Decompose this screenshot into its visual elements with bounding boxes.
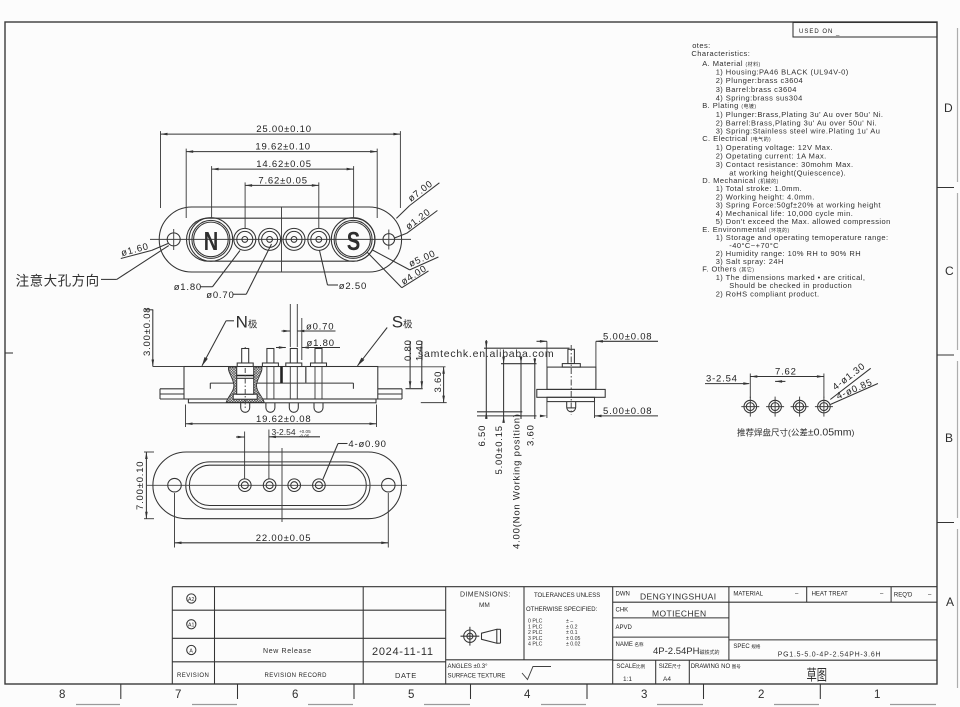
svg-text:REVISION: REVISION <box>177 673 209 679</box>
svg-text:DWN: DWN <box>616 592 630 598</box>
side view pins top <box>237 349 253 367</box>
svg-text:推荐焊盘尺寸(公差±0.05mm): 推荐焊盘尺寸(公差±0.05mm) <box>737 427 855 439</box>
revision table verticals <box>171 587 173 684</box>
label ø1.20 <box>394 207 438 238</box>
bottom view v centerline <box>281 448 283 522</box>
svg-text:B: B <box>945 431 953 445</box>
end view pin shaft <box>568 349 575 363</box>
dim 7.62±0.05 <box>245 175 319 228</box>
svg-text:A1: A1 <box>188 623 194 629</box>
svg-text:D: D <box>944 101 953 115</box>
svg-text:New Release: New Release <box>263 648 312 655</box>
label ø4.00 <box>367 252 429 288</box>
svg-text:7.62: 7.62 <box>775 367 797 378</box>
svg-text:0.80: 0.80 <box>403 339 414 361</box>
dim 6.50 <box>477 340 488 447</box>
end view centerline <box>570 345 572 415</box>
svg-text:DIMENSIONS:: DIMENSIONS: <box>460 592 511 599</box>
svg-text:HEAT TREAT: HEAT TREAT <box>812 592 849 598</box>
svg-text:± 0.02: ± 0.02 <box>566 642 580 648</box>
svg-text:注意大孔方向: 注意大孔方向 <box>16 273 100 289</box>
side view pin tails <box>241 403 250 413</box>
svg-text:14.62±0.05: 14.62±0.05 <box>256 159 311 170</box>
label ø0.70 <box>206 244 271 301</box>
svg-text:1: 1 <box>874 689 880 701</box>
dim 1.40 (side) <box>415 339 426 388</box>
svg-text:REVISION RECORD: REVISION RECORD <box>265 673 328 679</box>
flange bottom line <box>160 398 402 400</box>
bottom view h centerline <box>147 484 407 486</box>
svg-text:MOTIECHEN: MOTIECHEN <box>652 609 707 619</box>
end view collar <box>562 364 580 368</box>
bottom view pin holes <box>239 479 252 492</box>
svg-text:4: 4 <box>524 689 531 701</box>
dim 3.60 end view <box>525 358 536 446</box>
svg-text:MATERIAL: MATERIAL <box>733 592 763 598</box>
svg-text:2) RoHS compliant product.: 2) RoHS compliant product. <box>716 290 820 299</box>
dim 19.62±0.08 <box>186 405 377 428</box>
svg-text:5.00±0.08: 5.00±0.08 <box>603 406 652 417</box>
svg-text:1) Plunger:Brass,Plating 3u': 1) Plunger:Brass,Plating 3u' Au over 50u… <box>716 110 884 119</box>
svg-text:5: 5 <box>408 689 414 701</box>
svg-text:A2: A2 <box>188 597 194 603</box>
ext line pin tip <box>484 347 570 349</box>
svg-text:ANGLES ±0.3°: ANGLES ±0.3° <box>448 664 489 670</box>
ext line lower <box>477 415 537 417</box>
svg-text:N: N <box>204 226 219 256</box>
svg-text:OTHERWISE SPECIFIED:: OTHERWISE SPECIFIED: <box>526 607 598 613</box>
svg-text:5.00±0.08: 5.00±0.08 <box>603 332 652 343</box>
pin bores centerlines <box>267 367 322 400</box>
label ø2.50 <box>320 251 368 293</box>
svg-text:DATE: DATE <box>395 671 417 680</box>
right flange tab <box>378 388 402 390</box>
dim 25.00±0.10 <box>161 124 401 208</box>
label ø5.00 <box>373 248 439 270</box>
label 4-ø1.30 <box>830 361 870 400</box>
bottom plate <box>188 399 376 403</box>
end view pin tail <box>567 402 576 412</box>
svg-text:A: A <box>189 648 193 654</box>
svg-text:PG1.5-5.0-4P-2.54PH-3.6H: PG1.5-5.0-4P-2.54PH-3.6H <box>778 652 882 659</box>
svg-text:C: C <box>945 264 954 278</box>
svg-text:2) Opetating current: 1A Ma: 2) Opetating current: 1A Max. <box>716 152 827 161</box>
pin 3 top view <box>283 228 305 250</box>
dim 14.62±0.05 <box>212 159 354 217</box>
label 4-ø0.90 <box>323 439 387 480</box>
revision table rows <box>172 609 445 611</box>
svg-text:4-ø0.90: 4-ø0.90 <box>348 439 386 450</box>
svg-text:3-2.54: 3-2.54 <box>272 427 296 437</box>
svg-text:草图: 草图 <box>807 667 828 684</box>
magnet foot collar <box>233 394 257 399</box>
svg-text:_: _ <box>835 30 840 36</box>
bottom view mounting holes <box>168 478 182 492</box>
pin 1 barrel <box>237 367 254 395</box>
svg-text:ø2.50: ø2.50 <box>339 281 367 292</box>
svg-text:ø0.70: ø0.70 <box>306 321 334 332</box>
svg-text:CHK: CHK <box>616 608 629 614</box>
bottom view inner stadium outer <box>186 462 370 509</box>
dim 3-2.54 <box>236 427 320 479</box>
label ø7.00 <box>396 178 439 218</box>
svg-text:3.00±0.08: 3.00±0.08 <box>142 307 153 356</box>
svg-text:ø1.80: ø1.80 <box>174 282 202 293</box>
bottom zone numbers <box>59 689 880 701</box>
svg-text:8: 8 <box>59 689 65 701</box>
housing body <box>184 367 378 400</box>
dim 22.00±0.05 <box>175 493 389 548</box>
bottom view outer stadium <box>153 452 402 519</box>
svg-text:DENGYINGSHUAI: DENGYINGSHUAI <box>640 592 717 602</box>
svg-text:6.50: 6.50 <box>477 425 488 447</box>
svg-text:5.00±0.15: 5.00±0.15 <box>494 425 505 474</box>
note chinese big-hole direction <box>16 246 169 289</box>
revision symbol A1 <box>187 620 196 629</box>
label N pole <box>202 313 258 366</box>
svg-text:6: 6 <box>292 689 298 701</box>
USED ON box <box>793 23 937 38</box>
body top ext right <box>378 366 446 368</box>
dim ø0.70 (side) <box>282 304 336 347</box>
dim 3-2.54 pads <box>705 374 785 385</box>
dim 7.62 pads <box>750 367 824 399</box>
dim 5.00±0.15 <box>494 356 505 475</box>
svg-text:1:1: 1:1 <box>623 676 632 683</box>
svg-text:1) Housing:PA46 BLACK (UL94V-: 1) Housing:PA46 BLACK (UL94V-0) <box>716 68 849 77</box>
right edge artifact line <box>957 28 959 688</box>
dim 4.00 non working <box>512 356 523 549</box>
svg-text:19.62±0.08: 19.62±0.08 <box>256 414 311 425</box>
bottom edge artifact segments <box>76 704 936 706</box>
svg-text:TOLERANCES UNLESS: TOLERANCES UNLESS <box>534 593 600 599</box>
svg-text:SURFACE TEXTURE: SURFACE TEXTURE <box>448 674 506 680</box>
svg-text:4.00(Non Working position): 4.00(Non Working position) <box>512 413 523 549</box>
svg-text:ø1.80: ø1.80 <box>307 338 335 349</box>
label 4-ø0.85 <box>830 377 878 405</box>
pin 2 top view <box>259 228 281 250</box>
title block outer top line <box>172 586 937 588</box>
svg-text:SPEC 规格: SPEC 规格 <box>733 643 761 650</box>
dim 5.00±0.08 bottom <box>540 402 658 418</box>
svg-text:3-2.54: 3-2.54 <box>706 374 738 385</box>
label S pole <box>358 313 414 366</box>
svg-text:25.00±0.10: 25.00±0.10 <box>256 124 311 135</box>
pads <box>741 397 759 417</box>
svg-text:7: 7 <box>175 689 181 701</box>
svg-text:2: 2 <box>758 689 764 701</box>
revision symbol A <box>187 645 196 654</box>
dim 3.60 (side) <box>421 367 447 403</box>
dim ø1.80 (side) <box>276 318 340 360</box>
svg-text:A: A <box>946 595 954 609</box>
svg-text:19.62±0.10: 19.62±0.10 <box>255 142 310 153</box>
dim 3.00±0.08 <box>142 307 184 367</box>
flange top ext right <box>406 388 423 390</box>
surface finish symbol <box>522 667 551 680</box>
svg-text:1.40: 1.40 <box>415 339 426 361</box>
dim 19.62±0.10 <box>186 142 377 218</box>
svg-text:Characteristics:: Characteristics: <box>691 49 750 58</box>
svg-text:USED ON: USED ON <box>799 29 833 35</box>
pin 4 top view <box>308 228 330 250</box>
pin 1 top view <box>234 228 256 250</box>
svg-text:SCALE比例: SCALE比例 <box>616 663 645 670</box>
svg-text:ø0.70: ø0.70 <box>206 290 234 301</box>
svg-text:7.00±0.10: 7.00±0.10 <box>135 461 146 510</box>
svg-text:3.60: 3.60 <box>525 424 536 446</box>
third angle projection symbol <box>461 627 501 646</box>
right margin ticks <box>5 188 954 523</box>
svg-text:NAME 名称: NAME 名称 <box>616 641 645 648</box>
svg-text:-0.05: -0.05 <box>299 433 310 438</box>
end view bottom plate <box>547 397 595 401</box>
label ø1.60 <box>120 241 168 259</box>
right mounting hole <box>383 234 395 246</box>
label ø1.80 <box>174 251 240 294</box>
center divider bar <box>280 367 283 384</box>
left flange tab <box>160 388 184 390</box>
dim 7.00±0.10 <box>135 452 154 519</box>
revision symbol A2 <box>187 594 196 603</box>
end view flange <box>537 389 605 397</box>
top view inner housing stadium <box>187 218 376 261</box>
svg-text:22.00±0.05: 22.00±0.05 <box>256 533 311 544</box>
svg-text:3.60: 3.60 <box>433 371 444 393</box>
dim 0.80 (side) <box>403 339 414 388</box>
svg-text:2024-11-11: 2024-11-11 <box>372 646 434 658</box>
dimensions/tolerance cell divider <box>523 587 525 660</box>
top view vertical centerline <box>281 207 283 272</box>
svg-text:A4: A4 <box>663 676 671 683</box>
left mounting hole <box>167 233 180 246</box>
ext line tail bottom <box>477 411 522 413</box>
svg-text:7.62±0.05: 7.62±0.05 <box>258 175 307 186</box>
svg-text:3: 3 <box>641 689 647 701</box>
svg-text:2) Plunger:brass c3604: 2) Plunger:brass c3604 <box>716 76 803 85</box>
dim 5.00±0.08 top <box>537 332 659 368</box>
svg-text:4 PLC: 4 PLC <box>528 642 543 648</box>
scale/size row dividers <box>655 660 657 684</box>
dwn column rows <box>613 601 937 603</box>
svg-text:SIZE尺寸: SIZE尺寸 <box>659 663 682 670</box>
material row dividers <box>806 587 808 603</box>
svg-text:REQ'D: REQ'D <box>894 593 913 599</box>
svg-text:APVD: APVD <box>616 625 633 631</box>
magnet S <box>331 218 375 262</box>
magnet hatch vase <box>226 367 264 402</box>
top view horizontal centerline <box>150 238 411 240</box>
end view body <box>547 367 596 389</box>
body step lines <box>210 382 353 384</box>
top view outer flange stadium <box>159 207 401 272</box>
bottom zone ticks <box>121 684 821 699</box>
svg-text:S: S <box>347 226 361 256</box>
magnet N <box>189 218 233 262</box>
ext line collar top <box>501 363 537 365</box>
bottom view inner stadium inner <box>189 465 366 505</box>
svg-text:MM: MM <box>479 602 490 609</box>
